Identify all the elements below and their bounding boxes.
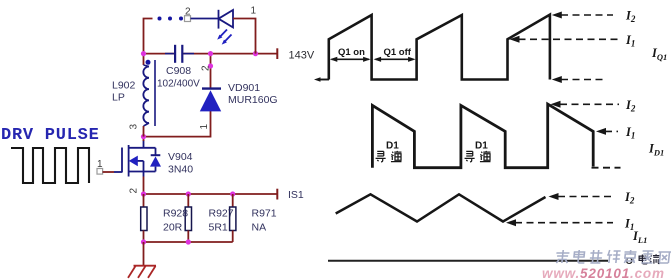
wire gate port to Q1 gate xyxy=(103,171,114,173)
transistor V904 MOSFET xyxy=(114,140,160,177)
svg-text:www.520101.com: www.520101.com xyxy=(542,266,664,280)
svg-text:IS1: IS1 xyxy=(288,189,304,201)
svg-text:Q1 on: Q1 on xyxy=(338,47,365,58)
wire port to LED xyxy=(191,18,219,20)
port square top xyxy=(185,16,191,22)
inductor core line xyxy=(154,60,156,126)
port square gate xyxy=(97,169,103,175)
watermark hanzi row xyxy=(555,250,671,263)
node drain junction dot xyxy=(141,134,146,139)
svg-text:3N40: 3N40 xyxy=(168,164,193,176)
wire to ground xyxy=(143,242,145,266)
node rail left dot xyxy=(141,51,146,56)
svg-text:2: 2 xyxy=(201,65,212,71)
arrow I2 of I_Q1 xyxy=(552,12,562,19)
LED lamp xyxy=(219,10,234,29)
svg-text:D1: D1 xyxy=(386,141,399,152)
wire top-left corner xyxy=(144,19,153,54)
waveform I_Q1 xyxy=(314,77,321,81)
svg-text:5R1: 5R1 xyxy=(209,222,228,234)
wire IS1 rail xyxy=(144,193,278,195)
svg-text:3: 3 xyxy=(129,124,140,130)
svg-text:R928: R928 xyxy=(163,208,188,220)
svg-text:Q1 off: Q1 off xyxy=(384,47,412,58)
arrow I2 of I_L1 xyxy=(549,193,559,200)
node 2 dot xyxy=(141,191,146,196)
label D1 conducting pulse 2 xyxy=(465,141,491,162)
wire inductor bottom xyxy=(143,126,145,137)
wire LED to right corner xyxy=(233,19,256,54)
waveform I_L1 xyxy=(336,194,546,221)
wire source to node 2 xyxy=(143,177,145,195)
arrow I1 of I_Q1 xyxy=(510,36,520,43)
label dianliu (current) hanzi xyxy=(639,254,659,264)
svg-text:MUR160G: MUR160G xyxy=(228,94,278,106)
node R927 top dot xyxy=(186,191,191,196)
arrow I1 of I_L1 xyxy=(506,219,516,226)
resistor R927 xyxy=(187,194,189,207)
arrow I2 of I_D1 xyxy=(551,101,561,108)
LED arrow 2 xyxy=(225,35,232,42)
svg-text:20R: 20R xyxy=(163,222,183,234)
resistor R928 xyxy=(143,194,145,207)
inductor phase dot xyxy=(146,60,151,65)
svg-text:VD901: VD901 xyxy=(228,82,260,94)
LED arrow 1 xyxy=(220,30,227,37)
zero current axis xyxy=(328,260,608,262)
node R971 top dot xyxy=(230,191,235,196)
Q1 off dimension arrow xyxy=(376,58,414,60)
waveform I_D1 xyxy=(372,104,593,168)
wire 143V rail xyxy=(144,53,177,55)
svg-text:R971: R971 xyxy=(252,208,277,220)
wire top dotted segment dots xyxy=(158,17,162,21)
drive pulse waveform icon xyxy=(11,148,89,183)
svg-text:DRV PULSE: DRV PULSE xyxy=(1,126,100,145)
svg-text:LP: LP xyxy=(112,92,125,104)
svg-text:102/400V: 102/400V xyxy=(157,79,200,90)
svg-text:L902: L902 xyxy=(112,80,136,92)
arrow baseline of I_Q1 xyxy=(552,76,562,83)
MOSFET body diode triangle xyxy=(150,156,161,166)
svg-text:V904: V904 xyxy=(168,151,193,163)
node rail diode dot xyxy=(208,51,213,56)
svg-text:R927: R927 xyxy=(209,208,234,220)
dashed baseline tail of I_D1 xyxy=(592,167,621,169)
svg-text:1: 1 xyxy=(199,124,210,130)
svg-text:NA: NA xyxy=(252,222,267,234)
inductor L902 xyxy=(143,54,145,65)
capacitor C908 xyxy=(165,45,194,63)
arrow I1 of I_D1 xyxy=(596,128,606,135)
diode VD901 xyxy=(210,54,212,89)
wire drain vertical xyxy=(143,137,145,141)
143V terminal bar xyxy=(276,48,278,59)
node bottom mid dot xyxy=(186,239,191,244)
IS1 terminal bar xyxy=(276,189,278,200)
ground xyxy=(128,266,156,278)
label D1 conducting pulse 1 xyxy=(376,141,402,162)
wire drain to diode anode xyxy=(144,111,211,137)
node bottom left dot xyxy=(141,239,146,244)
MOSFET substrate arrow xyxy=(129,156,138,167)
pin 2 dot of VD901 xyxy=(208,63,213,68)
svg-text:2: 2 xyxy=(129,188,140,194)
Q1 on dimension arrow xyxy=(332,58,370,60)
node rail LED dot xyxy=(253,51,258,56)
svg-text:C908: C908 xyxy=(166,65,191,77)
wire bottom rail xyxy=(144,241,233,243)
resistor R971 xyxy=(232,194,234,207)
svg-text:143V: 143V xyxy=(289,50,315,62)
svg-text:1: 1 xyxy=(251,6,257,17)
